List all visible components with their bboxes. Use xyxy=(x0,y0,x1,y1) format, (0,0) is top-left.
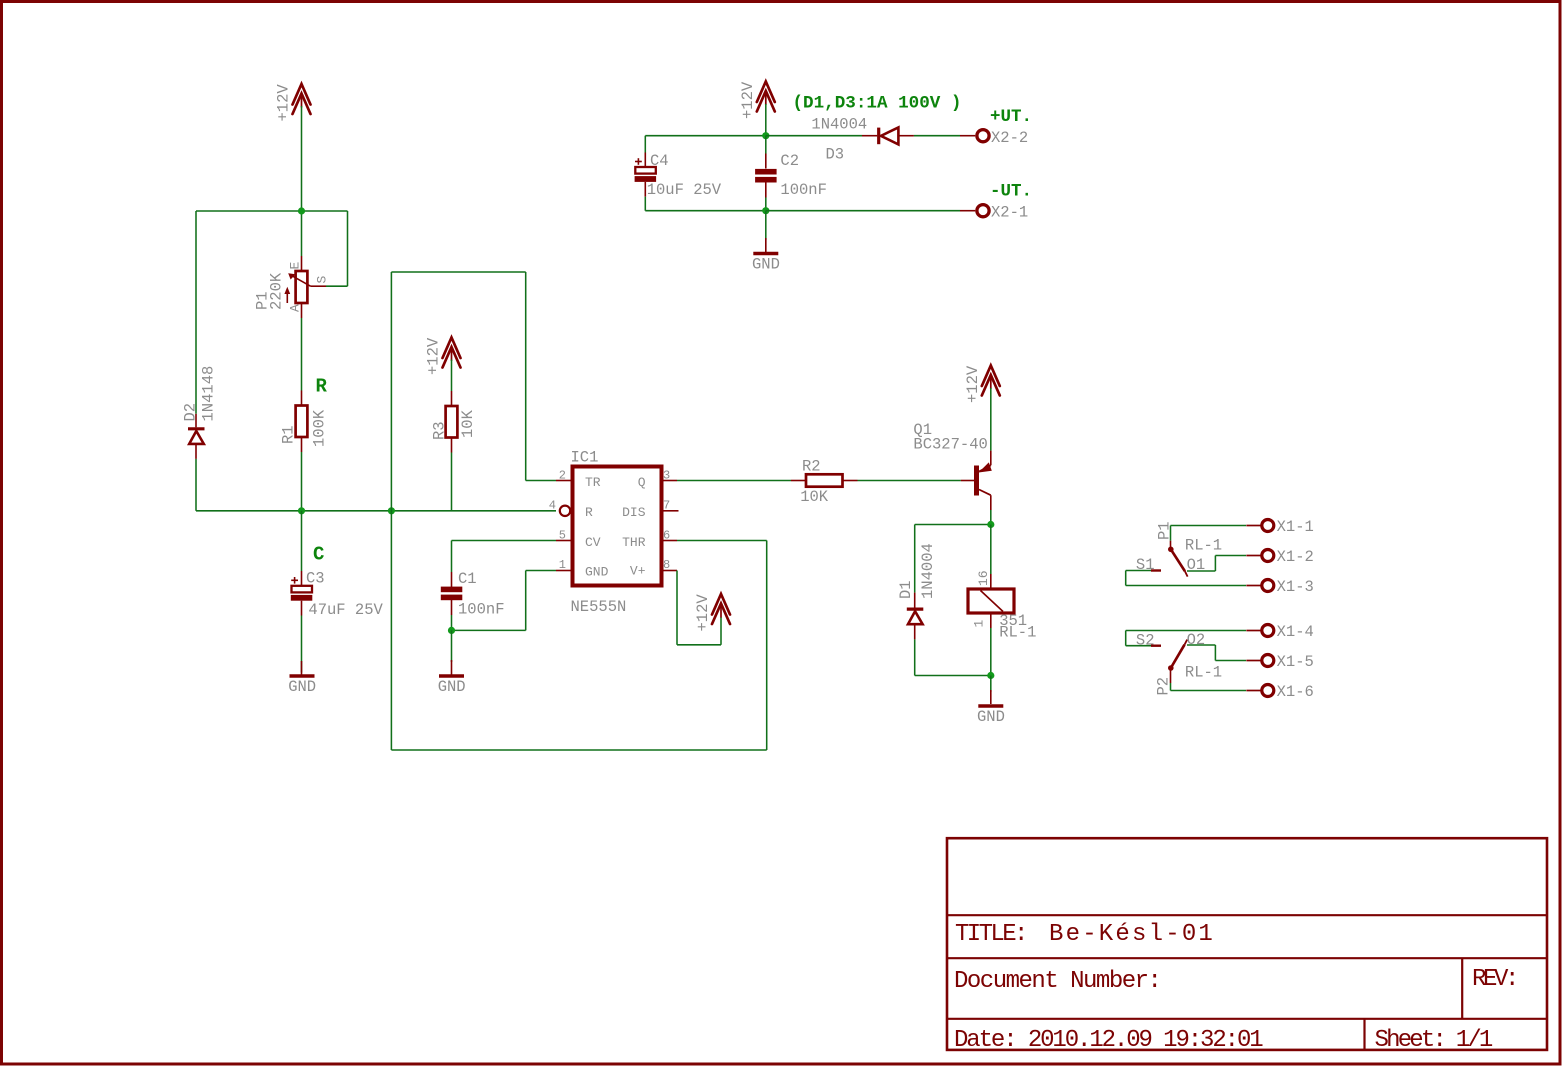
power +12V (R3 branch) xyxy=(425,337,461,391)
diode D3 1N4004 xyxy=(811,116,914,164)
junction node row left xyxy=(298,507,305,514)
potentiometer P1 220K xyxy=(254,256,330,318)
svg-text:C3: C3 xyxy=(306,570,325,588)
connector X1-3 xyxy=(1246,578,1314,596)
title block frame xyxy=(947,838,1547,1050)
wire node left to D2 branch xyxy=(196,210,302,212)
svg-text:NE555N: NE555N xyxy=(571,598,627,616)
svg-text:5: 5 xyxy=(559,529,566,543)
title text xyxy=(955,921,1215,948)
svg-text:O2: O2 xyxy=(1187,631,1206,649)
svg-text:1: 1 xyxy=(559,558,566,572)
power +12V (Q1 emitter) xyxy=(964,365,1000,451)
net label -UT. xyxy=(990,182,1032,202)
resistor R1 100K xyxy=(280,391,329,453)
svg-text:TITLE:: TITLE: xyxy=(955,921,1026,948)
resistor R2 10K xyxy=(791,458,858,507)
svg-text:220K: 220K xyxy=(268,272,286,310)
capacitor C1 100nF xyxy=(441,570,505,619)
wire C3 to GND xyxy=(301,616,303,675)
sheet text xyxy=(1375,1027,1493,1054)
svg-text:Q: Q xyxy=(638,475,646,490)
svg-text:C4: C4 xyxy=(650,152,669,170)
svg-text:6: 6 xyxy=(663,529,670,543)
svg-text:C1: C1 xyxy=(458,570,477,588)
connector X1-4 xyxy=(1246,623,1314,641)
svg-text:+12V: +12V xyxy=(964,365,982,403)
wire R2 to Q1 base xyxy=(858,480,961,482)
wire D3 to X2-2 xyxy=(914,135,960,137)
connector X2-1 xyxy=(960,204,1028,222)
ground supply xyxy=(752,254,780,274)
svg-text:(D1,D3:1A 100V ): (D1,D3:1A 100V ) xyxy=(793,94,962,114)
transistor Q1 BC327-40 xyxy=(913,421,991,510)
wire junction to D1 xyxy=(915,525,991,593)
wire O2 to X1-5 xyxy=(1187,645,1246,661)
svg-text:D3: D3 xyxy=(826,146,845,164)
svg-text:A: A xyxy=(288,304,303,312)
wire S1 to X1-3 xyxy=(1126,571,1246,586)
svg-text:Sheet: 1/1: Sheet: 1/1 xyxy=(1375,1027,1493,1054)
svg-text:2: 2 xyxy=(559,469,566,483)
svg-text:1: 1 xyxy=(972,620,987,628)
wire pin8 V+ to +12V xyxy=(677,571,721,645)
svg-text:S2: S2 xyxy=(1136,632,1155,650)
svg-text:D2: D2 xyxy=(182,403,200,422)
connector X1-6 xyxy=(1246,683,1314,701)
svg-text:X1-6: X1-6 xyxy=(1277,683,1314,701)
connector X1-5 xyxy=(1246,653,1314,671)
wire X1-4 to S2 xyxy=(1126,630,1246,632)
wire Q1 collector to junction xyxy=(990,510,992,525)
connector X2-2 xyxy=(960,129,1028,147)
svg-text:10uF 25V: 10uF 25V xyxy=(647,181,722,199)
svg-text:P1: P1 xyxy=(1156,521,1174,540)
wire relay to junction xyxy=(990,628,992,676)
wire junction to GND xyxy=(765,211,767,252)
svg-text:+12V: +12V xyxy=(275,84,293,122)
wire node row horizontal xyxy=(196,510,556,512)
svg-text:X1-3: X1-3 xyxy=(1277,578,1314,596)
junction collector xyxy=(987,521,994,528)
power +12V (P1 branch) xyxy=(275,84,311,122)
ground relay xyxy=(977,706,1005,726)
svg-text:+UT.: +UT. xyxy=(990,107,1032,127)
junction +12V rail xyxy=(762,132,769,139)
svg-text:X1-2: X1-2 xyxy=(1277,548,1314,566)
svg-text:47uF 25V: 47uF 25V xyxy=(308,601,383,619)
wire C1 junction to GND xyxy=(451,630,453,674)
ground below C1 xyxy=(438,676,466,696)
diode D2 1N4148 xyxy=(182,366,218,459)
svg-text:RL-1: RL-1 xyxy=(1185,537,1222,555)
svg-text:16: 16 xyxy=(976,570,991,586)
wire C1 to junction xyxy=(451,615,453,630)
svg-text:+12V: +12V xyxy=(425,337,443,375)
relay contact S1/P1/O1 (RL-1) xyxy=(1136,521,1222,576)
capacitor C2 100nF xyxy=(755,136,827,199)
svg-text:100nF: 100nF xyxy=(458,601,505,619)
svg-text:X1-4: X1-4 xyxy=(1277,623,1314,641)
green note (D1,D3:1A 100V ) xyxy=(793,94,962,114)
svg-text:X1-5: X1-5 xyxy=(1277,653,1314,671)
svg-text:GND: GND xyxy=(752,256,780,274)
svg-text:100K: 100K xyxy=(311,409,329,447)
svg-text:R2: R2 xyxy=(802,458,821,476)
wire +12V rail to D3 xyxy=(766,135,862,137)
wire D2 down to node row xyxy=(195,459,197,511)
document number text xyxy=(954,968,1160,995)
svg-text:C2: C2 xyxy=(780,152,799,170)
svg-text:7: 7 xyxy=(663,499,670,513)
svg-text:TR: TR xyxy=(585,475,601,490)
wire R3 to pin 4 row xyxy=(451,453,453,511)
svg-text:S1: S1 xyxy=(1136,556,1155,574)
capacitor C3 47uF 25V (polarized) xyxy=(291,511,384,619)
svg-text:GND: GND xyxy=(977,708,1005,726)
svg-text:THR: THR xyxy=(622,535,646,550)
svg-text:+12V: +12V xyxy=(739,81,757,119)
junction node +12V/P1 xyxy=(298,207,305,214)
svg-text:Be-Késl-01: Be-Késl-01 xyxy=(1049,921,1215,948)
junction relay/D1 xyxy=(987,672,994,679)
wire pin5 CV to C1 xyxy=(452,541,557,573)
wire TR-THR loop xyxy=(391,272,766,750)
svg-text:100nF: 100nF xyxy=(780,181,827,199)
wire pot A to R1 xyxy=(301,318,303,391)
svg-text:8: 8 xyxy=(663,558,670,572)
wire +12V rail to C4 xyxy=(645,136,766,153)
net label C xyxy=(313,544,324,566)
svg-text:RL-1: RL-1 xyxy=(999,624,1036,642)
wire X1-1 to P1 xyxy=(1171,525,1247,527)
diode D1 1N4004 xyxy=(897,543,937,639)
svg-text:R1: R1 xyxy=(280,425,298,444)
capacitor C4 10uF 25V (polarized) xyxy=(635,152,722,199)
svg-text:10K: 10K xyxy=(800,488,829,506)
svg-text:GND: GND xyxy=(288,678,316,696)
wire D2 branch vertical xyxy=(195,211,197,414)
wire node down to pot E xyxy=(301,211,303,256)
svg-text:RL-1: RL-1 xyxy=(1185,664,1222,682)
svg-text:BC327-40: BC327-40 xyxy=(913,436,987,454)
svg-text:C: C xyxy=(313,544,324,566)
svg-text:S: S xyxy=(315,276,330,284)
power +12V (supply filter) xyxy=(739,81,775,136)
svg-text:X2-2: X2-2 xyxy=(991,129,1028,147)
op-amp timer IC1 NE555N xyxy=(549,449,679,617)
svg-text:X2-1: X2-1 xyxy=(991,204,1028,222)
svg-text:-UT.: -UT. xyxy=(990,182,1032,202)
ground below C3 xyxy=(288,676,316,696)
svg-text:D1: D1 xyxy=(897,580,915,599)
svg-text:V+: V+ xyxy=(630,564,646,579)
svg-text:R: R xyxy=(585,505,593,520)
connector X1-1 xyxy=(1246,518,1314,536)
svg-text:X1-1: X1-1 xyxy=(1277,518,1314,536)
wire P2 to X1-6 xyxy=(1171,683,1247,691)
resistor R3 10K xyxy=(431,391,478,453)
net label +UT. xyxy=(990,107,1032,127)
svg-text:1N4148: 1N4148 xyxy=(200,366,218,422)
junction C1/GND xyxy=(448,627,455,634)
svg-text:IC1: IC1 xyxy=(571,449,599,467)
svg-text:GND: GND xyxy=(585,564,609,579)
wire C2 to bottom rail xyxy=(765,198,767,211)
junction bottom rail xyxy=(762,207,769,214)
rev text xyxy=(1472,966,1516,993)
svg-text:CV: CV xyxy=(585,535,601,550)
svg-text:REV:: REV: xyxy=(1472,966,1516,993)
svg-text:E: E xyxy=(288,262,303,270)
wire junction to pin1 GND xyxy=(452,571,557,631)
wire D1 to junction below xyxy=(915,639,991,675)
wire R1 to node row xyxy=(301,452,303,511)
svg-text:3: 3 xyxy=(663,469,670,483)
date text xyxy=(954,1027,1263,1054)
wire C4 to bottom rail xyxy=(645,197,766,211)
svg-text:DIS: DIS xyxy=(622,505,646,520)
relay contact S2/P2/O2 (RL-1) xyxy=(1126,631,1222,696)
svg-text:4: 4 xyxy=(549,499,556,513)
svg-text:GND: GND xyxy=(438,678,466,696)
svg-text:1N4004: 1N4004 xyxy=(919,543,937,599)
svg-text:10K: 10K xyxy=(459,409,477,438)
relay coil RL-1 351 xyxy=(968,525,1036,642)
wire +12V down to node xyxy=(301,106,303,211)
junction node row right xyxy=(388,507,395,514)
svg-text:Date: 2010.12.09 19:32:01: Date: 2010.12.09 19:32:01 xyxy=(954,1027,1263,1054)
wire node right to pot wiper loop xyxy=(302,211,348,286)
svg-text:Document Number:: Document Number: xyxy=(954,968,1160,995)
svg-text:R3: R3 xyxy=(431,421,449,440)
connector X1-2 xyxy=(1246,548,1314,566)
net label R xyxy=(316,376,328,398)
svg-text:+12V: +12V xyxy=(694,594,712,632)
svg-text:R: R xyxy=(316,376,328,398)
power +12V (V+ branch) xyxy=(694,594,730,632)
svg-text:1N4004: 1N4004 xyxy=(811,116,867,134)
wire bottom rail to X2-1 xyxy=(766,210,960,212)
wire pin3 Q to R2 xyxy=(677,480,791,482)
wire junction to GND xyxy=(990,676,992,705)
wire O1 to X1-2 xyxy=(1187,556,1246,572)
